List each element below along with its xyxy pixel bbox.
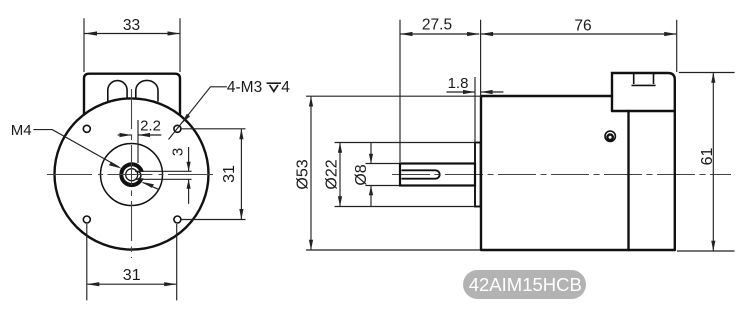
dim 2.2 (118, 134, 132, 136)
shaft flat slot (402, 170, 440, 178)
svg-text:31: 31 (221, 165, 238, 183)
horizontal centerline (47, 174, 217, 176)
pilot boss circle (101, 144, 163, 206)
mounting hole bottom-left (83, 216, 90, 223)
slot end rounded cap (138, 171, 141, 179)
svg-text:M4: M4 (11, 122, 32, 139)
vertical centerline (131, 89, 133, 258)
svg-text:61: 61 (699, 148, 716, 166)
depth symbol (267, 83, 281, 91)
housing bottom edge (612, 110, 675, 112)
motor body circle (55, 98, 209, 249)
flat feature line (2.2 offset) (137, 120, 139, 163)
dim 27.5 (399, 20, 401, 162)
mounting hole top-left (83, 125, 90, 132)
shaft (400, 164, 475, 186)
mounting hole bottom-right (174, 216, 181, 223)
dim 3 (188, 147, 190, 171)
svg-text:42AIM15HCB: 42AIM15HCB (469, 274, 582, 295)
dim diameter 53 (306, 95, 481, 97)
M4 tapped hole circle (126, 169, 138, 181)
svg-text:2.2: 2.2 (140, 118, 161, 135)
flat width extension lines (3) (135, 170, 192, 172)
model label pill (463, 270, 586, 299)
connector slot right (136, 80, 158, 101)
pilot boss (1.8) (475, 143, 481, 207)
end cap line (627, 111, 629, 250)
svg-text:3: 3 (169, 148, 186, 156)
svg-text:Ø8: Ø8 (353, 164, 370, 185)
svg-text:27.5: 27.5 (422, 17, 452, 34)
side centerline (392, 174, 731, 176)
shaft hub thick ring (121, 164, 142, 185)
dim 76 (676, 20, 678, 72)
svg-text:4: 4 (281, 79, 290, 96)
svg-text:31: 31 (123, 267, 141, 284)
M4 leader (33, 130, 119, 167)
mounting hole top-right (174, 125, 181, 132)
dim diameter 22 (335, 142, 476, 144)
dim 31 bottom (86, 224, 88, 300)
hub arrow lower-right (143, 183, 159, 190)
connector housing (front view) (84, 74, 180, 115)
slot notch white-out (138, 172, 146, 178)
motor body outline (481, 96, 675, 250)
connector housing (side view) (612, 73, 675, 250)
screw head (605, 131, 615, 141)
dim 33 (83, 18, 85, 72)
dim 31 right (181, 128, 246, 130)
svg-text:4-M3: 4-M3 (227, 79, 262, 96)
svg-text:76: 76 (574, 18, 591, 35)
svg-text:Ø22: Ø22 (323, 159, 340, 189)
dim diameter 8 (366, 163, 400, 165)
dim 61 (679, 72, 735, 74)
latch notch (632, 73, 656, 85)
4-M3 leader (169, 87, 227, 140)
connector slot left (108, 81, 127, 102)
svg-text:33: 33 (123, 17, 140, 34)
dim 1.8 (474, 77, 476, 143)
svg-text:1.8: 1.8 (448, 75, 469, 92)
svg-text:Ø53: Ø53 (295, 159, 312, 189)
